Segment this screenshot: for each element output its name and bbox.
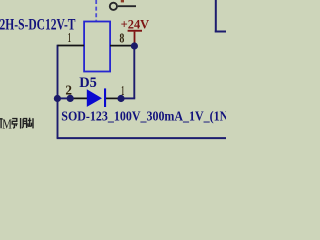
svg-text:M: M: [2, 117, 12, 132]
svg-text:+24V: +24V: [121, 17, 150, 31]
svg-text:1: 1: [121, 84, 124, 99]
svg-text:1: 1: [68, 31, 71, 46]
svg-text:SOD-123_100V_300mA_1V_(1N: SOD-123_100V_300mA_1V_(1N: [61, 109, 226, 124]
svg-text:2H-S-DC12V-T: 2H-S-DC12V-T: [0, 17, 76, 34]
svg-text:8: 8: [119, 31, 124, 46]
svg-text:2: 2: [65, 83, 72, 98]
svg-text:D5: D5: [79, 75, 97, 91]
